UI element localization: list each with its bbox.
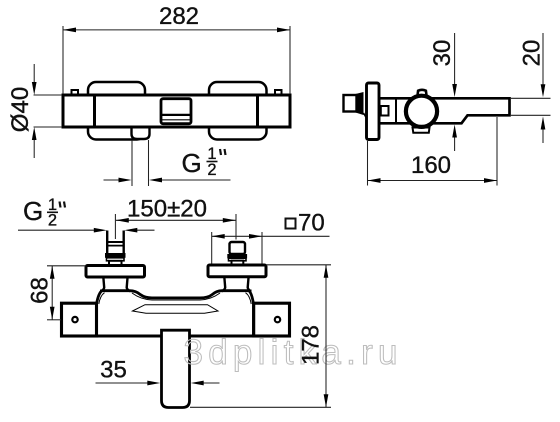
svg-text:G: G bbox=[23, 196, 43, 226]
top view: faucet body bbox=[63, 95, 290, 127]
front view G1/2 leader arrows bbox=[18, 229, 95, 231]
front view: right inlet thread pipe bbox=[230, 242, 246, 254]
dimension 178 bbox=[266, 264, 331, 266]
top view: left wall tick bbox=[72, 90, 79, 96]
front view: right screw bbox=[275, 317, 280, 322]
svg-text:160: 160 bbox=[411, 152, 451, 179]
dimension 160 bbox=[367, 141, 369, 186]
front view: left inlet nut bbox=[105, 253, 126, 258]
front view: body highlight sliver bbox=[133, 305, 219, 314]
dimension Ø40 arrows bbox=[33, 64, 35, 86]
front view: left screw bbox=[72, 317, 77, 322]
svg-text:68: 68 bbox=[27, 277, 54, 304]
svg-text:20: 20 bbox=[519, 40, 546, 67]
front view: right inlet nut bbox=[227, 254, 247, 258]
side view: notch bbox=[381, 106, 389, 116]
svg-text:2: 2 bbox=[207, 161, 216, 179]
top view: right wall tick bbox=[275, 90, 282, 96]
front view: left cone bbox=[101, 278, 130, 292]
side view: bonnet line bbox=[395, 98, 397, 123]
dimension Ø40 extension lines bbox=[34, 94, 63, 96]
top view: right handle bbox=[209, 82, 267, 140]
front view: body bottom edge bbox=[95, 334, 255, 337]
dimension 282 line bbox=[63, 29, 290, 31]
dimension 20 bbox=[542, 33, 544, 85]
dimension 68 bbox=[47, 265, 86, 267]
svg-text:282: 282 bbox=[159, 3, 199, 30]
front view: body highlight curves bbox=[99, 293, 105, 304]
side view: knob top tab bbox=[417, 90, 426, 97]
side view: knob bottom tab bbox=[413, 128, 430, 133]
top view: right end cap line bbox=[256, 95, 259, 127]
svg-text:35: 35 bbox=[100, 357, 127, 384]
svg-text:150±20: 150±20 bbox=[127, 195, 207, 222]
front view: right wall plate bbox=[254, 303, 290, 336]
dimension 30 bbox=[454, 33, 456, 85]
top view: left handle bbox=[88, 82, 145, 140]
dimension 150±20 bbox=[114, 214, 116, 239]
svg-text:2: 2 bbox=[48, 212, 57, 230]
side view: shower nipple bbox=[344, 95, 357, 112]
front view: left inlet collar bbox=[109, 261, 122, 266]
top view G1/2 arrows bbox=[104, 179, 121, 181]
front view: left escutcheon bbox=[86, 266, 145, 278]
dimension square 70 bbox=[211, 232, 213, 264]
front view: right cone bbox=[222, 278, 251, 292]
side view: wall flange bbox=[367, 83, 380, 140]
dimension 282 extension lines bbox=[62, 26, 64, 94]
svg-text:178: 178 bbox=[298, 325, 325, 365]
front view: body outline bbox=[97, 291, 254, 336]
side view: body and spout outline bbox=[379, 98, 510, 123]
svg-text:70: 70 bbox=[298, 210, 325, 237]
front view: spout bbox=[162, 330, 190, 407]
top view G1/2 extension lines bbox=[131, 140, 133, 186]
dimension 35 bbox=[96, 382, 149, 384]
front view: right inlet collar bbox=[232, 261, 244, 265]
top view: left end cap line bbox=[93, 95, 96, 127]
top view: center knob bbox=[161, 99, 191, 124]
svg-text:3dplitka.ru: 3dplitka.ru bbox=[184, 333, 403, 372]
svg-text:30: 30 bbox=[429, 40, 456, 67]
front view: left inlet thread pipe bbox=[107, 231, 124, 254]
top view: shower outlet bump bbox=[132, 126, 150, 139]
side view: nipple wedge bbox=[356, 92, 364, 115]
front view: left wall plate bbox=[62, 303, 97, 336]
svg-text:G: G bbox=[182, 148, 202, 178]
svg-text:Ø40: Ø40 bbox=[7, 87, 34, 132]
front view: right escutcheon bbox=[208, 265, 266, 277]
side view: knob circle bbox=[406, 96, 437, 127]
